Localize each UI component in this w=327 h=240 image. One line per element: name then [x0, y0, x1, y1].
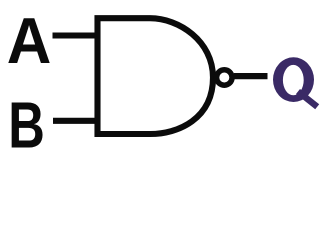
NAND gate U1 body [98, 18, 214, 134]
wire Q output [234, 73, 268, 79]
wire A input [53, 32, 100, 38]
svg-text:A: A [7, 5, 52, 77]
output label Q: ring [273, 57, 314, 102]
NAND inverter bubble [217, 70, 233, 86]
output label Q: tail [298, 92, 317, 107]
svg-text:B: B [8, 89, 45, 161]
wire B input [53, 118, 99, 124]
